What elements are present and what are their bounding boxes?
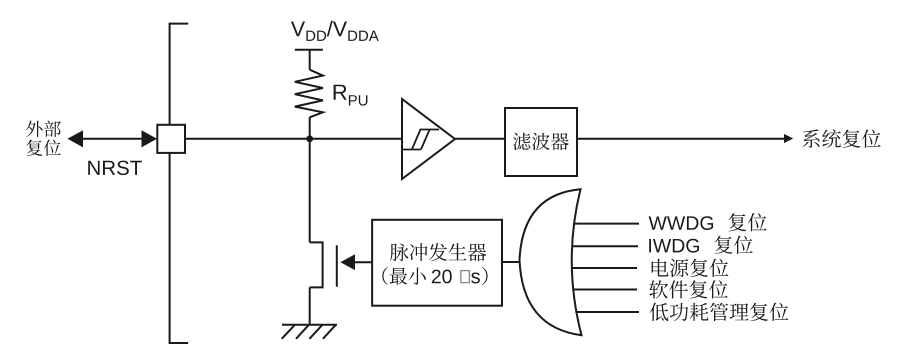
- wire OR gate output to pulse generator: [502, 261, 520, 263]
- input wire 低功耗管理复位: [575, 311, 639, 313]
- resistor RPU: [295, 70, 323, 118]
- wire Schmitt output to filter: [455, 138, 505, 140]
- NRST pad box: [157, 125, 185, 153]
- wire resistor bottom to node: [309, 117, 311, 139]
- chip boundary bracket: [170, 24, 189, 343]
- tofu box (missing µ glyph): [461, 271, 470, 283]
- power rail VDD bar: [295, 50, 323, 70]
- wire node down to transistor drain: [309, 139, 311, 243]
- label 低功耗管理复位: [650, 303, 789, 322]
- wire NRST pad to Schmitt trigger input: [185, 138, 402, 140]
- OR gate (reset sources): [520, 189, 582, 335]
- label 电源复位: [652, 259, 729, 277]
- node junction (NRST net): [306, 135, 313, 142]
- input wire 软件复位: [573, 289, 637, 291]
- input wire WWDG: [574, 223, 639, 225]
- transistor pulldown MOSFET: [310, 242, 337, 287]
- label RPU: [334, 85, 368, 106]
- bidirectional arrow NRST external reset: [68, 130, 158, 147]
- power label VDD/VDDA: [291, 21, 379, 41]
- input wire IWDG: [572, 245, 638, 247]
- label NRST: [88, 161, 142, 176]
- wire transistor source to ground: [309, 287, 311, 324]
- label IWDG 复位: [649, 236, 753, 254]
- wire filter to system reset with arrowhead: [577, 134, 793, 143]
- label 外部复位 (external reset): [26, 121, 61, 157]
- label 系统复位 (system reset): [802, 129, 880, 148]
- filter box 滤波器: [505, 108, 577, 176]
- label 软件复位: [649, 280, 728, 298]
- input wire 电源复位: [571, 267, 637, 269]
- ground symbol: [282, 325, 337, 339]
- label WWDG 复位: [649, 213, 767, 231]
- Schmitt trigger buffer: [402, 99, 456, 179]
- gate drive arrow from pulse generator: [340, 254, 372, 270]
- pulse generator box 脉冲发生器 (最小 20 µs): [372, 220, 502, 306]
